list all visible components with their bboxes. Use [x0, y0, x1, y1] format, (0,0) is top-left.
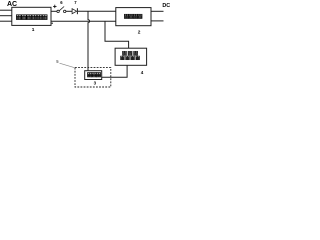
wire box1 minus output to output circuit block — [51, 20, 116, 22]
block 4: battery charge control circuit (dian chi chong / kong zhi dian lu) — [115, 48, 147, 65]
wire AC input line 3 — [0, 20, 12, 22]
switch 6 contact right — [63, 10, 65, 12]
wire junction at (88,11.3) down to battery pack, hop over minus rail — [88, 11, 90, 70]
svg-text:AC: AC — [7, 1, 17, 8]
wire DC output line 1 — [151, 10, 164, 12]
label 5 leader line — [60, 63, 76, 68]
node + terminal — [53, 5, 56, 7]
block 3: battery pack (dian chi zu) — [85, 71, 102, 80]
svg-text:4: 4 — [141, 70, 144, 75]
block 2: output circuit (shu chu dian lu) — [116, 8, 151, 26]
enclosure 5: dashed battery compartment — [75, 68, 111, 87]
wire junction (105,21.2) down and over to charge control block — [105, 21, 129, 48]
switch 6 contact left — [57, 10, 59, 12]
wire DC output line 2 — [151, 20, 164, 22]
wire box1 plus output to switch S6 — [51, 10, 57, 12]
svg-text:DC: DC — [162, 3, 170, 9]
svg-text:2: 2 — [138, 29, 141, 35]
wire AC input line 1 — [0, 9, 12, 11]
diode 7 cathode bar — [76, 8, 78, 14]
wire switch to diode D7 — [66, 10, 72, 12]
diode 7 anode triangle — [72, 9, 77, 14]
wire diode to output circuit block — [78, 10, 116, 12]
wire charge control block to battery pack — [102, 65, 127, 77]
block 1: circuit conversion module (dian lu zhuan huan mo kuai) — [12, 7, 51, 25]
wire AC input line 2 — [0, 15, 12, 17]
node - terminal — [52, 22, 53, 24]
svg-text:1: 1 — [32, 27, 35, 33]
switch 6 lever — [59, 7, 64, 11]
